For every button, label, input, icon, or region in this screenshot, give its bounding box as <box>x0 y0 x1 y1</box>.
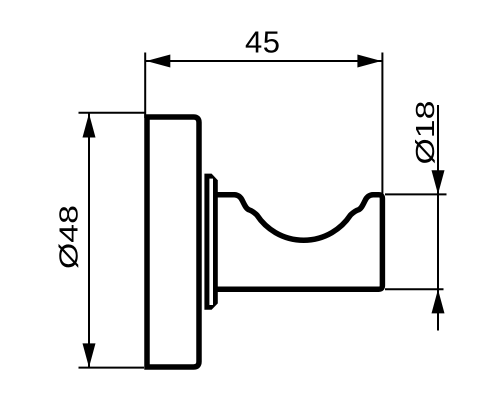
dimension 45: left arrow <box>146 55 170 68</box>
dimension Ø48: bottom arrow <box>83 343 96 367</box>
wall plate (side view, Ø48 disc) <box>147 117 199 367</box>
dimension Ø18: extension line bottom <box>385 288 444 290</box>
dimension 45: right arrow <box>357 55 381 68</box>
dimension Ø18: dimension line <box>437 105 439 331</box>
svg-text:Ø48: Ø48 <box>55 205 83 269</box>
dimension 45: dimension line <box>146 60 382 62</box>
hook body outline (scalloped profile) <box>215 195 382 289</box>
flange (collar between plate and hook) <box>204 174 217 310</box>
flange inner white slit <box>209 179 213 305</box>
dimension Ø18: extension line top <box>385 193 447 195</box>
dimension Ø48: extension line top <box>79 112 147 114</box>
dimension Ø18: bottom arrow (pointing up) <box>432 289 445 313</box>
dimension Ø48: dimension line <box>88 113 90 367</box>
svg-text:45: 45 <box>245 25 280 60</box>
dimension Ø18: top arrow (pointing down) <box>432 170 445 194</box>
dimension 45: extension line left <box>144 53 146 119</box>
dimension 45: extension line right <box>381 53 383 197</box>
dimension Ø48: extension line bottom <box>79 367 145 369</box>
svg-text:Ø18: Ø18 <box>412 101 440 165</box>
dimension Ø48: top arrow <box>83 114 96 138</box>
